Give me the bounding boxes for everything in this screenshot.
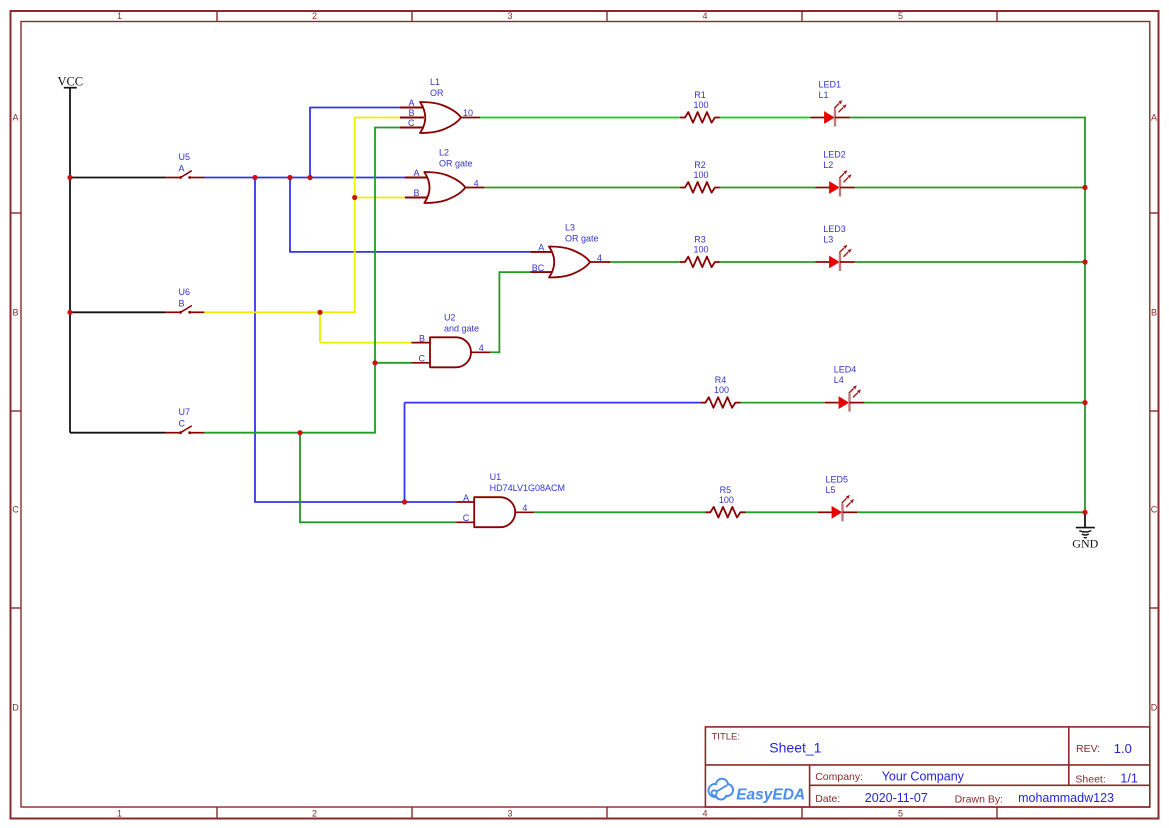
svg-text:D: D [12, 703, 19, 713]
svg-text:C: C [179, 419, 186, 429]
svg-text:B: B [408, 108, 414, 118]
svg-text:1: 1 [117, 808, 122, 818]
svg-text:100: 100 [693, 170, 708, 180]
svg-text:4: 4 [479, 343, 484, 353]
svg-text:4: 4 [597, 253, 602, 263]
svg-text:A: A [538, 243, 544, 253]
svg-text:100: 100 [719, 495, 734, 505]
svg-text:A: A [463, 493, 469, 503]
svg-text:LED2: LED2 [823, 150, 846, 160]
svg-text:4: 4 [702, 11, 707, 21]
svg-text:100: 100 [693, 245, 708, 255]
svg-text:2020-11-07: 2020-11-07 [865, 791, 928, 805]
svg-text:OR gate: OR gate [439, 159, 473, 169]
svg-text:B: B [12, 308, 18, 318]
svg-text:Sheet:: Sheet: [1075, 774, 1105, 786]
svg-text:100: 100 [693, 100, 708, 110]
svg-text:4: 4 [522, 503, 527, 513]
svg-text:LED5: LED5 [826, 474, 849, 484]
svg-text:R2: R2 [694, 160, 706, 170]
svg-text:R5: R5 [720, 485, 732, 495]
svg-text:TITLE:: TITLE: [712, 732, 741, 743]
svg-text:2: 2 [312, 808, 317, 818]
svg-text:OR: OR [430, 88, 444, 98]
svg-text:L3: L3 [565, 223, 575, 233]
svg-text:LED1: LED1 [819, 80, 842, 90]
svg-text:1.0: 1.0 [1114, 741, 1132, 756]
svg-text:U1: U1 [490, 472, 502, 482]
svg-text:A: A [1151, 113, 1157, 123]
svg-text:2: 2 [312, 11, 317, 21]
svg-text:U5: U5 [179, 152, 191, 162]
svg-text:L3: L3 [823, 235, 833, 245]
svg-text:U2: U2 [444, 313, 456, 323]
svg-text:L5: L5 [826, 485, 836, 495]
svg-text:3: 3 [507, 11, 512, 21]
svg-text:C: C [463, 513, 470, 523]
svg-text:VCC: VCC [57, 74, 83, 88]
svg-text:D: D [1151, 703, 1158, 713]
svg-text:5: 5 [898, 11, 903, 21]
svg-text:GND: GND [1072, 537, 1098, 551]
svg-text:Company:: Company: [815, 771, 863, 783]
svg-text:C: C [419, 354, 426, 364]
svg-text:EasyEDA: EasyEDA [736, 787, 805, 804]
svg-text:Your Company: Your Company [882, 770, 965, 784]
svg-text:LED4: LED4 [834, 365, 857, 375]
svg-text:and gate: and gate [444, 324, 479, 334]
svg-text:A: A [413, 168, 419, 178]
svg-text:A: A [12, 113, 18, 123]
svg-text:U6: U6 [179, 287, 191, 297]
svg-text:B: B [419, 333, 425, 343]
svg-text:C: C [12, 505, 19, 515]
svg-text:Sheet_1: Sheet_1 [769, 740, 821, 756]
svg-text:L2: L2 [439, 148, 449, 158]
svg-text:4: 4 [702, 808, 707, 818]
svg-text:L1: L1 [430, 77, 440, 87]
svg-text:REV:: REV: [1076, 743, 1100, 755]
svg-text:B: B [179, 298, 185, 308]
svg-text:HD74LV1G08ACM: HD74LV1G08ACM [490, 483, 565, 493]
svg-text:A: A [179, 164, 185, 174]
svg-text:mohammadw123: mohammadw123 [1018, 791, 1114, 805]
svg-text:Date:: Date: [815, 793, 840, 805]
svg-text:C: C [408, 118, 415, 128]
svg-text:A: A [408, 98, 414, 108]
svg-text:BC: BC [532, 263, 545, 273]
svg-text:L2: L2 [823, 160, 833, 170]
svg-text:5: 5 [898, 808, 903, 818]
svg-text:B: B [413, 188, 419, 198]
svg-text:1/1: 1/1 [1120, 772, 1137, 786]
svg-text:R1: R1 [694, 90, 706, 100]
svg-text:U7: U7 [179, 407, 191, 417]
svg-text:10: 10 [463, 108, 473, 118]
svg-text:1: 1 [117, 11, 122, 21]
svg-text:LED3: LED3 [823, 224, 846, 234]
svg-text:Drawn By:: Drawn By: [955, 794, 1003, 806]
svg-text:OR gate: OR gate [565, 234, 599, 244]
svg-text:B: B [1151, 308, 1157, 318]
svg-text:3: 3 [507, 808, 512, 818]
svg-text:L4: L4 [834, 375, 844, 385]
svg-text:100: 100 [714, 385, 729, 395]
svg-text:R3: R3 [694, 235, 706, 245]
svg-text:L1: L1 [819, 90, 829, 100]
svg-text:4: 4 [474, 178, 479, 188]
svg-text:C: C [1151, 505, 1158, 515]
svg-text:R4: R4 [715, 375, 727, 385]
